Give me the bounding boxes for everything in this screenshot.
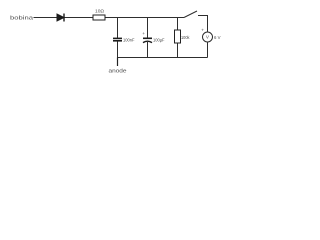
svg-text:anode: anode — [109, 68, 127, 74]
svg-text:6 V: 6 V — [214, 35, 221, 40]
svg-text:bobina: bobina — [10, 16, 33, 22]
svg-text:+: + — [201, 28, 204, 33]
svg-text:10Ω: 10Ω — [95, 8, 104, 13]
svg-text:100k: 100k — [181, 35, 190, 40]
svg-text:100nF: 100nF — [123, 38, 135, 43]
svg-text:+: + — [142, 31, 145, 36]
svg-text:100µF: 100µF — [153, 38, 165, 43]
